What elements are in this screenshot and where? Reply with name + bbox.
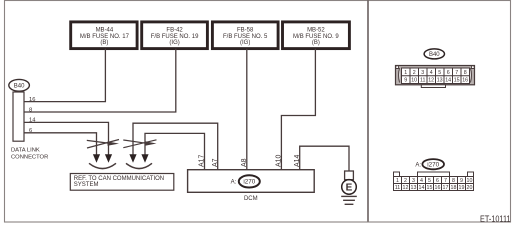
svg-text:E: E xyxy=(346,183,353,194)
svg-text:5: 5 xyxy=(438,70,441,76)
svg-text:11: 11 xyxy=(395,185,401,191)
box REF. TO CAN COMMUNICATION SYSTEM xyxy=(70,174,174,191)
svg-text:9: 9 xyxy=(460,178,463,184)
wire FB-42 to DLC pin 8 xyxy=(24,49,176,112)
wire FB-58 to DCM A8 xyxy=(246,49,248,170)
svg-text:8: 8 xyxy=(464,70,467,76)
svg-text:A:: A: xyxy=(231,179,237,185)
svg-text:7: 7 xyxy=(455,70,458,76)
wire DCM A7 (CAN) xyxy=(133,123,218,170)
svg-text:MB-44: MB-44 xyxy=(96,27,114,33)
svg-text:14: 14 xyxy=(419,185,425,191)
svg-text:6: 6 xyxy=(447,70,450,76)
connector view B40 pin numbers xyxy=(404,70,468,84)
svg-text:(B): (B) xyxy=(312,40,320,46)
svg-text:3: 3 xyxy=(412,178,415,184)
svg-text:20: 20 xyxy=(467,185,473,191)
twisted pair symbol right xyxy=(123,140,156,169)
svg-text:2: 2 xyxy=(413,70,416,76)
ground symbol bars xyxy=(341,196,357,204)
svg-text:14: 14 xyxy=(445,78,451,84)
text DATA LINK CONNECTOR xyxy=(11,147,48,160)
svg-text:SYSTEM: SYSTEM xyxy=(74,182,99,188)
connector view i270 pin numbers xyxy=(395,178,473,191)
wire MB-44 to DLC pin 16 xyxy=(24,49,105,102)
wire DCM A14 to ground xyxy=(300,146,349,171)
fuse MB-52 xyxy=(283,22,350,49)
svg-text:A:: A: xyxy=(415,163,421,169)
svg-text:CONNECTOR: CONNECTOR xyxy=(11,154,48,160)
svg-text:8: 8 xyxy=(452,178,455,184)
svg-text:DATA LINK: DATA LINK xyxy=(11,147,40,153)
svg-text:4: 4 xyxy=(430,70,433,76)
connector label B40 (oval) xyxy=(9,79,30,91)
svg-text:12: 12 xyxy=(428,78,434,84)
svg-text:12: 12 xyxy=(403,185,409,191)
connector view B40 pin grid xyxy=(402,68,470,84)
wire MB-52 to DCM A10 xyxy=(281,49,315,170)
svg-text:(B): (B) xyxy=(100,40,108,46)
svg-text:1: 1 xyxy=(404,70,407,76)
svg-text:1: 1 xyxy=(396,178,399,184)
svg-text:6: 6 xyxy=(436,178,439,184)
svg-text:i270: i270 xyxy=(243,179,255,186)
svg-text:i270: i270 xyxy=(427,161,439,168)
svg-text:ET-10111: ET-10111 xyxy=(480,214,511,224)
wire DCM A17 (CAN) xyxy=(145,133,205,169)
svg-text:17: 17 xyxy=(443,185,449,191)
fuse MB-44 xyxy=(71,22,137,49)
twisted pair symbol left xyxy=(87,140,119,169)
svg-text:5: 5 xyxy=(428,178,431,184)
DCM box xyxy=(188,170,315,193)
svg-text:10: 10 xyxy=(467,178,473,184)
svg-text:3: 3 xyxy=(421,70,424,76)
svg-text:(IG): (IG) xyxy=(240,40,250,46)
svg-text:15: 15 xyxy=(454,78,460,84)
connector view i270 label xyxy=(415,159,444,169)
svg-text:18: 18 xyxy=(451,185,457,191)
svg-text:DCM: DCM xyxy=(244,196,258,202)
connector view B40 shell xyxy=(396,66,475,88)
svg-text:4: 4 xyxy=(420,178,423,184)
svg-text:7: 7 xyxy=(444,178,447,184)
svg-text:13: 13 xyxy=(437,78,443,84)
svg-text:A8: A8 xyxy=(241,158,248,167)
data link connector body xyxy=(13,92,24,141)
connector view i270 pin grid xyxy=(394,177,474,191)
svg-text:A7: A7 xyxy=(212,158,219,167)
svg-text:A17: A17 xyxy=(199,154,206,167)
svg-text:16: 16 xyxy=(435,185,441,191)
svg-text:B40: B40 xyxy=(429,52,440,58)
svg-text:19: 19 xyxy=(459,185,465,191)
panel divider xyxy=(367,1,369,222)
fuse FB-42 xyxy=(142,22,208,49)
svg-text:15: 15 xyxy=(427,185,433,191)
svg-text:11: 11 xyxy=(420,78,426,84)
svg-text:13: 13 xyxy=(411,185,417,191)
svg-text:9: 9 xyxy=(404,78,407,84)
fuse FB-58 xyxy=(212,22,278,49)
wire DLC pin 14 (CAN) xyxy=(24,122,109,155)
svg-text:MB-52: MB-52 xyxy=(307,27,325,33)
connector view i270 tabs xyxy=(394,172,474,177)
svg-text:16: 16 xyxy=(462,78,468,84)
svg-text:A10: A10 xyxy=(276,154,283,167)
right panel: connector view B40 label xyxy=(424,49,444,59)
wire DLC pin 6 (CAN) xyxy=(24,133,97,156)
svg-text:FB-58: FB-58 xyxy=(237,27,254,33)
svg-text:FB-42: FB-42 xyxy=(166,27,183,33)
ground connector square xyxy=(345,171,354,180)
ground E circle xyxy=(342,180,357,195)
svg-text:10: 10 xyxy=(411,78,417,84)
svg-text:B40: B40 xyxy=(14,83,25,89)
svg-text:(IG): (IG) xyxy=(169,40,179,46)
svg-text:2: 2 xyxy=(404,178,407,184)
